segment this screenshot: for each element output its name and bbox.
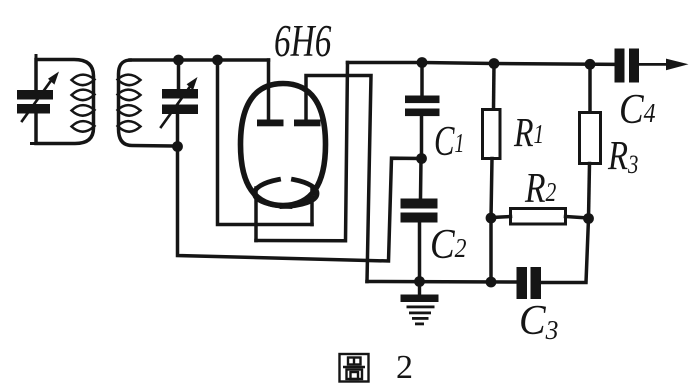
capacitor C1 top lead	[420, 63, 424, 96]
ground symbol	[401, 282, 439, 326]
variable capacitor CV2 arrow	[161, 77, 198, 127]
tube U1 right plate lead, over the top and down to ground bus	[306, 76, 371, 282]
variable capacitor CV2 top lead	[177, 60, 181, 89]
node: ground junction	[414, 276, 425, 287]
resistor R3 body	[580, 113, 601, 164]
capacitor C4 plates	[615, 49, 640, 83]
svg-text:C2: C2	[430, 221, 467, 268]
capacitor C3 plates	[517, 267, 542, 299]
tube U1 right plate	[294, 120, 321, 127]
capacitor C2 plates	[401, 199, 438, 223]
inductor L2 loop 1	[118, 75, 141, 86]
inductor L2 loop 2	[118, 90, 141, 101]
tube U1 right cathode	[282, 180, 317, 207]
wire: output after C4	[639, 63, 670, 66]
resistor R3 bottom lead	[589, 164, 590, 219]
tank 1 corner overshoot ticks	[32, 56, 37, 144]
resistor R2 right lead	[566, 217, 589, 219]
resistor R2 body	[511, 209, 566, 225]
inductor L2 vertical and corners	[119, 60, 173, 146]
variable capacitor CV2 bottom lead	[176, 114, 180, 147]
svg-text:C3: C3	[519, 296, 558, 345]
resistor R1 body	[483, 110, 501, 159]
wire: top-right output bus	[348, 63, 615, 65]
resistor R1 top lead	[492, 64, 496, 110]
wire: top-left bus from L2 to left diode plate	[130, 58, 269, 62]
tube U1 left cathode	[254, 180, 290, 207]
wire: left cathode up to output bus	[256, 63, 348, 241]
wire: C1/C2 junction to tank 2 bottom	[178, 147, 422, 262]
node: top-left bus junction	[212, 55, 223, 66]
inductor L2 loop 4	[118, 121, 141, 132]
tube U1 left cathode lead	[254, 188, 258, 241]
inductor L1 loop 3	[72, 105, 95, 116]
inductor L1 loop 4	[72, 121, 95, 132]
resistor R2 left lead	[491, 217, 511, 218]
node: C1/C2 junction	[416, 153, 427, 164]
tube U1 right cathode lead	[310, 189, 314, 225]
resistor R1 bottom lead	[491, 159, 492, 283]
wire: ground bus	[367, 280, 517, 284]
svg-text:R3: R3	[607, 134, 638, 180]
svg-text:2: 2	[396, 349, 413, 386]
tank 1 loop wire	[36, 60, 94, 144]
output arrow	[666, 59, 689, 71]
capacitor C1 plates	[405, 96, 440, 117]
node: C1 top	[417, 57, 428, 68]
capacitor C2 top lead	[419, 159, 423, 199]
inductor L2 loop 3	[118, 105, 141, 116]
variable capacitor CV2 plates	[162, 89, 198, 114]
tube U1 left plate	[257, 120, 284, 127]
node: CV2 top junction	[173, 55, 184, 66]
svg-text:R1: R1	[513, 109, 544, 155]
tube U1 6H6 envelope	[241, 84, 326, 206]
wire: right cathode to tank top bus	[218, 60, 313, 225]
node: R1 bottom on ground bus	[486, 277, 497, 288]
node: R1 top	[489, 58, 500, 69]
wire: ground bus right of C3 up to R2/R3 node	[541, 219, 589, 283]
svg-text:R2: R2	[524, 166, 556, 212]
variable capacitor CV1 arrow	[22, 72, 59, 122]
node: R2/R3 junction	[583, 213, 594, 224]
svg-text:C4: C4	[619, 86, 656, 133]
node: tank 2 bottom junction	[172, 141, 183, 152]
variable capacitor CV1 plates	[17, 90, 53, 114]
svg-text:C1: C1	[434, 117, 464, 164]
capacitor C2 bottom lead	[418, 223, 422, 282]
resistor R3 top lead	[588, 64, 592, 112]
caption glyph 圖 (drawn)	[340, 354, 369, 382]
inductor L1 loop 1	[72, 75, 95, 86]
inductor L1 loop 2	[72, 90, 95, 101]
svg-text:6H6: 6H6	[274, 16, 332, 66]
capacitor C1 bottom lead	[420, 116, 424, 159]
node: R1/R2 junction	[486, 213, 497, 224]
node: R3/C4 top	[585, 59, 596, 70]
tube U1 left plate lead	[267, 60, 271, 120]
